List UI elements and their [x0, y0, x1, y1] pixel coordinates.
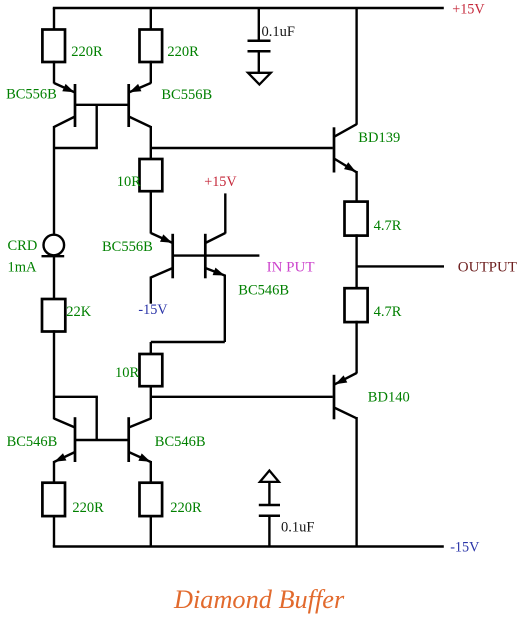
- svg-text:220R: 220R: [71, 44, 103, 60]
- transistor Q5 BC546B NPN (bottom left, diode-connected): [54, 417, 75, 462]
- capacitor C1 0.1uF (top decoupling): [248, 41, 271, 52]
- resistor R5 10R (lower): [140, 354, 163, 386]
- wire: C1 bottom plate to ground: [258, 51, 260, 73]
- svg-text:0.1uF: 0.1uF: [281, 520, 314, 536]
- svg-text:IN PUT: IN PUT: [267, 260, 315, 276]
- ground symbol (bottom): [260, 471, 279, 482]
- wire: Q5 base-collector tie horizontal: [54, 396, 98, 398]
- wire: +15V rail to C1 top plate: [258, 8, 260, 41]
- transistor Q7 BD139 NPN (output upper): [334, 124, 357, 172]
- capacitor C2 0.1uF (bottom decoupling): [259, 505, 280, 516]
- transistor Q2 BC556B PNP (current mirror output): [129, 83, 151, 127]
- wire: Q3 collector stub to -15V: [150, 277, 152, 304]
- svg-text:BC546B: BC546B: [238, 283, 289, 299]
- wire: down to R5 top: [150, 342, 152, 354]
- resistor R2 220R (top second): [140, 30, 163, 63]
- resistor R3 10R (upper): [140, 159, 163, 191]
- svg-text:+15V: +15V: [204, 174, 237, 190]
- resistor R9 4.7R (lower): [345, 288, 368, 322]
- ground symbol (top): [248, 73, 271, 85]
- CRD current regulating diode 1mA: [42, 235, 65, 257]
- transistor Q8 BD140 PNP (output lower): [334, 373, 357, 419]
- svg-text:BC556B: BC556B: [102, 239, 153, 255]
- wire: CRD to R4 22K: [53, 256, 55, 299]
- transistor Q3 BC556B PNP (input stage upper): [151, 233, 173, 278]
- svg-text:220R: 220R: [167, 44, 199, 60]
- svg-text:1mA: 1mA: [8, 260, 38, 276]
- wire: Q5 base line to Q6 base: [75, 439, 129, 441]
- svg-text:OUTPUT: OUTPUT: [458, 260, 517, 276]
- wire: +15V rail to R1 top: [53, 8, 55, 30]
- svg-text:22K: 22K: [66, 304, 92, 320]
- svg-text:4.7R: 4.7R: [374, 304, 402, 320]
- wire: Q5 base-collector tie vertical: [95, 397, 97, 440]
- svg-text:-15V: -15V: [450, 540, 480, 556]
- wire: Q1 base-collector tie horizontal: [54, 147, 98, 149]
- wire: +15V rail to BD139 collector: [355, 8, 357, 125]
- wire: C2 bottom plate to -15V rail: [268, 516, 270, 547]
- wire: Q5 emitter to R6 top: [53, 461, 55, 483]
- wire: Q6 emitter to R7 top: [150, 461, 152, 483]
- svg-text:-15V: -15V: [138, 302, 168, 318]
- wire: R9 bottom to BD140 emitter: [355, 321, 357, 374]
- resistor R8 4.7R (upper): [345, 202, 368, 236]
- transistor Q1 BC556B PNP (top left, diode-connected): [54, 83, 75, 127]
- svg-text:BD139: BD139: [358, 130, 400, 146]
- svg-text:0.1uF: 0.1uF: [262, 24, 295, 40]
- wire: +15V top power rail: [53, 7, 444, 10]
- wire: Q4 emitter across to R5: [151, 341, 225, 343]
- svg-text:220R: 220R: [170, 500, 202, 516]
- resistor R1 220R (top left): [42, 30, 65, 63]
- wire: R5 bottom to Q6 collector: [150, 385, 152, 419]
- svg-text:BC556B: BC556B: [6, 87, 57, 103]
- wire: Q1 base line to Q2 base: [75, 104, 129, 106]
- resistor R4 22K: [42, 299, 65, 332]
- svg-text:BC546B: BC546B: [155, 434, 206, 450]
- wire: BD140 collector to -15V rail: [355, 417, 357, 547]
- wire: Q4 emitter down: [224, 275, 226, 343]
- svg-text:10R: 10R: [117, 174, 142, 190]
- resistor R6 220R (bottom left): [42, 483, 65, 516]
- wire: +15V stub for Q4 collector: [224, 193, 226, 233]
- wire: Q1 base-collector tie vertical: [95, 105, 97, 148]
- wire: node to BD140 base (long horizontal): [151, 396, 333, 398]
- wire: +15V rail to R2 top: [150, 8, 152, 30]
- svg-text:BC556B: BC556B: [161, 87, 212, 103]
- transistor Q6 BC546B NPN (current mirror output): [129, 417, 151, 462]
- wire: R1 bottom to Q1 emitter: [53, 61, 55, 84]
- wire: Q2 collector down to R3: [150, 126, 152, 159]
- svg-text:BD140: BD140: [368, 390, 410, 406]
- wire: R8 bottom to output node: [355, 234, 357, 288]
- svg-text:220R: 220R: [72, 500, 104, 516]
- wire: R4 bottom to Q5 collector: [53, 330, 55, 419]
- svg-text:CRD: CRD: [8, 238, 38, 254]
- svg-text:+15V: +15V: [452, 2, 485, 18]
- wire: R3 bottom to Q3 emitter: [150, 190, 152, 233]
- wire: R7 bottom to -15V rail: [150, 515, 152, 547]
- wire: ground to C2 top plate: [268, 482, 270, 505]
- wire: -15V bottom power rail: [53, 545, 444, 548]
- transistor Q4 BC546B NPN (input stage lower): [205, 233, 225, 278]
- wire: node to BD139 base (long horizontal): [151, 147, 333, 149]
- svg-text:Diamond Buffer: Diamond Buffer: [173, 585, 345, 614]
- wire: output node to OUTPUT terminal: [357, 265, 444, 267]
- wire: R6 bottom to -15V rail: [53, 515, 55, 547]
- svg-text:BC546B: BC546B: [7, 434, 58, 450]
- wire: BD139 emitter to R8 top: [355, 171, 357, 202]
- wire: input base line Q3-Q4 to IN PUT: [173, 254, 260, 256]
- svg-text:4.7R: 4.7R: [374, 218, 402, 234]
- wire: R2 bottom to Q2 emitter: [150, 61, 152, 84]
- svg-text:10R: 10R: [115, 365, 140, 381]
- resistor R7 220R (bottom second): [140, 483, 163, 516]
- wire: Q1 collector down to CRD: [53, 126, 55, 235]
